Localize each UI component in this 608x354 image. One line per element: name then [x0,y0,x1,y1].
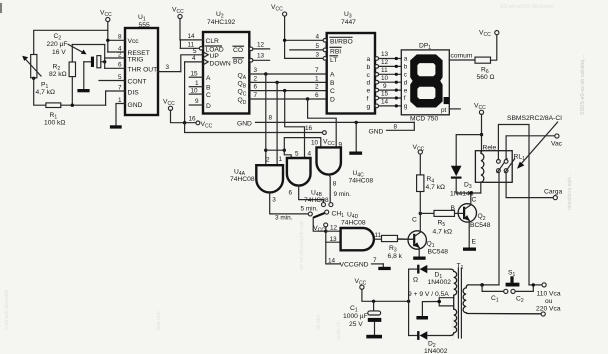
wire coil bottom [480,182,482,193]
svg-text:8: 8 [269,115,273,122]
junction 110 rail [532,283,535,286]
svg-text:C: C [206,92,211,99]
svg-text:1N4002: 1N4002 [428,279,452,286]
wire QA to U4C pin10 [284,138,321,151]
svg-text:R5: R5 [438,220,446,229]
svg-text:VCC: VCC [323,139,335,148]
junction rectifier output [407,300,410,303]
svg-text:C: C [412,217,417,224]
svg-text:a: a [367,56,371,63]
svg-text:ou: ou [545,298,553,305]
svg-text:CH1: CH1 [332,211,345,220]
wire DOWN pin4 to Vcc [185,61,203,63]
wire QD to U4C pin9 [308,99,337,147]
svg-text:110 Vca: 110 Vca [537,290,561,297]
wire BO stub pin13 [249,53,269,62]
svg-text:11: 11 [381,67,388,74]
svg-text:THR OUT: THR OUT [128,67,158,74]
junction QC [283,89,286,92]
svg-text:220 Vca: 220 Vca [536,305,561,312]
wire QD to U3 D [249,98,326,100]
wire CH1 pole to U4D inputs [313,218,326,232]
svg-text:c: c [404,72,408,79]
power Vcc symbol over U3 [271,4,287,58]
junction QA branch [264,149,267,152]
svg-text:BC548: BC548 [428,248,449,255]
svg-text:4: 4 [308,150,312,157]
terminal 220Vca [536,290,561,316]
svg-text:7: 7 [315,67,319,74]
svg-text:4,7 kΩ: 4,7 kΩ [36,89,56,96]
switch S1 pushbutton [506,270,520,287]
svg-text:RBI: RBI [330,49,341,56]
svg-text:VCC: VCC [271,4,283,13]
wire D stub pin9 [189,104,203,106]
junction QB [275,81,278,84]
AND gate U4C 74HC08 [311,140,373,185]
svg-text:UP: UP [210,53,220,60]
wire tap to C1 connector [482,285,504,292]
wire U4B output 5min [288,186,323,213]
resistor R4 [417,154,445,213]
svg-text:comum: comum [451,53,473,60]
svg-text:3: 3 [254,67,258,74]
svg-text:15: 15 [381,91,389,98]
svg-text:BC548: BC548 [470,222,491,229]
svg-text:BI/RBO: BI/RBO [330,39,353,46]
wire LOAD pin11 [180,40,203,50]
svg-text:16: 16 [189,116,197,123]
capacitor C1 [343,301,381,335]
svg-text:6,8 k: 6,8 k [388,253,403,260]
junction pin4 [283,39,286,42]
svg-text:16 V: 16 V [52,49,66,56]
wire A stub pin15 [189,76,203,78]
switch CH1 contact 9min [329,203,333,207]
svg-text:7447: 7447 [341,19,356,26]
junction Q2 collector node [469,191,472,194]
IC U2 74HC192 [203,11,249,114]
transistor Q1 BC548 [398,231,449,256]
svg-text:Rele: Rele [483,145,497,152]
wire Q1 emitter [418,248,420,257]
svg-text:A: A [330,72,335,79]
ground below U1 [110,125,122,128]
wire QC to U3 C [249,90,326,92]
svg-text:a: a [404,56,408,63]
wire right contact to Vac [506,136,555,160]
svg-text:74HC08: 74HC08 [349,178,374,185]
svg-text:25 V: 25 V [349,321,363,328]
svg-text:DOWN: DOWN [210,60,231,67]
wire GND rail drop [355,122,357,151]
wire QB to U3 B [249,81,326,83]
svg-text:5: 5 [315,43,319,50]
svg-text:82 kΩ: 82 kΩ [49,71,67,78]
wire U4C output 9min [329,175,351,203]
junction QA [264,72,267,75]
wire P1 to R1 [34,78,46,105]
svg-text:ob od obusoqoib oqsl: ob od obusoqoib oqsl [299,221,305,270]
wire CONT stub pin5 [99,80,125,82]
junction primary tap [480,283,484,287]
svg-text:g: g [367,103,371,110]
junction Vcc net [183,121,186,124]
AND gate U4A 74HC08 [230,156,283,192]
diode D3 1N4148 [450,166,474,198]
svg-text:Carga: Carga [544,188,562,195]
svg-text:ocoe ob: ocoe ob [336,321,342,340]
resistor R6 [475,57,495,81]
wire segment c pin11 [375,67,401,76]
svg-text:9 min.: 9 min. [334,191,352,198]
wire pt stub [449,108,460,110]
wire pin13 [326,231,341,243]
svg-text:14: 14 [188,33,196,40]
wire CO stub pin12 [249,41,269,50]
wire U4A output 3min [270,193,309,222]
AND gate U4D 74HC08 [341,212,374,251]
junction pin8 [106,39,109,42]
svg-text:f: f [404,95,406,102]
svg-text:4,7 kΩ: 4,7 kΩ [433,229,453,236]
svg-text:3 min.: 3 min. [275,214,293,221]
relay contact right [504,159,515,173]
power Vcc symbol over R6 [479,30,499,39]
svg-text:b: b [404,64,408,71]
ground below C2 [77,89,89,92]
svg-text:1: 1 [279,156,283,163]
junction TRIG-C2 [103,60,106,63]
wire segment a pin13 [375,51,401,60]
resistor R3 [382,235,415,259]
wire center tap [422,298,453,316]
svg-text:SBMS2RC2/8A-CI: SBMS2RC2/8A-CI [507,115,562,122]
svg-text:C: C [472,197,477,204]
svg-text:VCC: VCC [479,30,491,39]
svg-text:BO: BO [233,59,243,66]
svg-text:d: d [367,80,371,87]
capacitor C2 [47,33,105,89]
junction node C [419,212,422,215]
svg-text:8: 8 [118,34,122,41]
ground U4D pin7 [378,267,390,270]
transistor Q2 BC548 [458,204,491,229]
svg-text:1000 µF: 1000 µF [343,313,368,320]
ground Q2 emitter [463,248,476,251]
svg-text:ob sbn: ob sbn [316,314,322,330]
svg-text:220 µF: 220 µF [47,41,68,48]
svg-text:74HC08: 74HC08 [341,220,366,227]
wire CLR pin14 [180,39,203,41]
svg-text:14: 14 [381,99,389,106]
svg-text:100 kΩ: 100 kΩ [44,120,65,127]
terminal pin16 Vcc of U2 [189,116,213,130]
junction C1 top [372,300,375,303]
junction GND rail [355,121,358,124]
svg-text:5: 5 [193,48,197,55]
svg-text:Vac: Vac [551,141,563,148]
junction U4D input node [324,230,327,233]
wire C2 to 110 rail [515,285,533,292]
potentiometer P1 [22,55,55,96]
wire comum to R6 [449,53,475,60]
svg-text:TRIG: TRIG [128,56,144,63]
svg-text:9 + 9 V / 0,5A: 9 + 9 V / 0,5A [408,291,449,298]
svg-text:1: 1 [118,97,122,104]
svg-text:pt: pt [441,107,447,114]
diode D2 1N4002 [409,331,451,354]
svg-text:12: 12 [381,59,389,66]
svg-text:10: 10 [381,75,389,82]
svg-text:13: 13 [330,236,338,243]
resistor R2 [49,45,76,106]
wire Q2 collector [470,193,472,205]
wire pin12 [326,225,341,232]
transformer secondary winding [450,269,456,335]
wire segment d pin10 [375,75,401,84]
svg-text:74HC08: 74HC08 [230,176,255,183]
relay coil [481,151,484,183]
svg-text:MCD 750: MCD 750 [410,115,439,122]
svg-text:4: 4 [192,55,196,62]
svg-text:6: 6 [288,189,292,196]
wire U3 GND pin8 [369,122,415,135]
svg-text:6: 6 [315,92,319,99]
svg-text:D3: D3 [464,182,472,191]
svg-text:D: D [330,97,335,104]
svg-text:SS-e0+aS0S-30-otiqeo: SS-e0+aS0S-30-otiqeo [500,4,554,10]
wire QA drop to U4A pin2 [265,74,267,165]
terminal 110Vca [542,283,546,287]
wire C stub pin10 [189,93,203,95]
wire Vcc to D3 [456,135,481,166]
wire LT pin3 [285,52,327,61]
svg-text:1: 1 [315,75,319,82]
svg-text:8: 8 [333,181,337,188]
svg-text:2: 2 [315,84,319,91]
svg-text:16: 16 [305,125,313,132]
svg-text:5: 5 [118,74,122,81]
svg-text:CONT: CONT [128,79,147,86]
svg-text:14: 14 [328,257,336,264]
svg-text:5 min.: 5 min. [301,206,319,213]
power Vcc symbol over U2 [172,7,184,40]
svg-text:VCC: VCC [201,121,213,130]
svg-text:4,7 kΩ: 4,7 kΩ [426,184,446,191]
svg-text:10: 10 [311,140,319,147]
svg-text:VCC: VCC [163,99,175,108]
wire segment b pin12 [375,59,401,68]
svg-text:5: 5 [295,150,299,157]
wire QA to U3 A [249,73,326,75]
wire rectifier cathode bus [408,269,410,335]
svg-text:2: 2 [266,157,270,164]
svg-text:1N4002: 1N4002 [424,348,448,354]
svg-text:C1: C1 [491,295,499,304]
svg-text:e: e [367,88,371,95]
svg-text:B: B [451,205,456,212]
wire QB drop to U4A pin1 [276,82,278,165]
switch CH1 contact 3min [308,212,312,216]
svg-text:3: 3 [272,197,276,204]
svg-text:f: f [367,96,369,103]
junction QD [306,97,309,100]
wire 110 rail [529,284,542,286]
svg-text:11: 11 [375,232,382,239]
svg-text:Q2: Q2 [478,213,486,222]
terminal C1 connector [491,289,508,303]
display digit 8 [410,54,442,107]
ground Q1 emitter [413,257,425,260]
resistor R1 [44,103,106,127]
leader arrow to C2 [68,44,87,54]
wire Q2 emitter [468,220,470,247]
svg-text:2: 2 [254,75,258,82]
wire segment f pin15 [375,91,401,100]
svg-text:560 Ω: 560 Ω [477,74,495,81]
segment dp [444,97,450,104]
leader arrow to relay [517,122,558,169]
svg-text:b: b [367,64,371,71]
svg-text:15: 15 [191,70,199,77]
IC U1 555 [118,14,158,115]
wire 555 output to UP pin5 [158,55,203,72]
svg-text:E: E [472,239,477,246]
wire DIS pin7 [106,91,125,105]
wire segment g pin14 [375,99,401,108]
wire QC to U4B pin4 [285,91,305,158]
svg-text:GND: GND [237,120,252,127]
svg-text:VCC: VCC [100,10,112,19]
wire B stub pin1 [189,86,203,88]
svg-text:74HC192: 74HC192 [207,19,236,26]
ground center tap [416,316,428,320]
wire Q1 collector [419,213,421,232]
svg-text:7: 7 [254,92,258,99]
power Vcc symbol over U1 [100,10,112,31]
wire Vcc rail to pins 8 and 4 [34,30,125,54]
display DP1 MCD750 [401,43,449,123]
svg-text:e: e [404,87,408,94]
svg-text:10: 10 [191,87,199,94]
relay box Rele [475,145,512,183]
svg-text:C2: C2 [516,296,524,305]
svg-text:g: g [404,103,408,110]
wire GND rail U2 pin8 [237,115,414,128]
svg-text:obsoilduq sqls…: obsoilduq sqls… [567,172,573,210]
wire U4D power pins 14 VCC GND 7 [326,242,384,268]
transformer T1 [457,263,464,339]
svg-text:D: D [206,103,211,110]
diode D1 1N4002 [409,265,452,286]
wire left contact to Carga bus [498,125,529,285]
wire R6 to Vcc [491,35,497,60]
svg-text:1: 1 [195,80,199,87]
power Vcc symbol over R4 [413,144,425,154]
wire BI/RBO pin4 [285,33,327,42]
terminal Vcc stub at pin12 [313,223,327,234]
svg-text:A: A [206,75,211,82]
svg-text:7: 7 [373,257,377,264]
terminal Carga [544,188,562,199]
switch CH1 contact 5min [322,203,326,207]
svg-text:Vcc: Vcc [128,38,140,45]
switch CH1 arm [313,213,325,218]
power Vcc symbol at C1 [355,278,409,301]
svg-text:SS0S-e0-ss ob odnilóq…: SS0S-e0-ss ob odnilóq… [580,54,586,115]
transformer primary winding [463,285,541,314]
wire DOWN pin Vcc drop [184,62,186,123]
svg-text:13: 13 [257,53,265,60]
wire QA branch across [266,149,285,151]
wire segment e pin9 [375,83,401,92]
wire TRIG/THR node [72,45,125,69]
switch CH1 pole [325,210,329,214]
AND gate U4B 74HC08 [287,150,329,204]
svg-text:13: 13 [381,51,389,58]
terminal pin16 Vcc of U3 [305,125,335,147]
junction QA branch2 [283,149,286,152]
resistor R5 [420,210,464,235]
svg-text:VCCGND: VCCGND [340,262,369,269]
power Vcc symbol left of pin16 [163,99,196,123]
svg-text:VCC: VCC [474,103,486,112]
svg-text:boe obo: boe obo [156,311,162,330]
wire left contact bottom to mains rail [498,173,500,285]
svg-text:4: 4 [315,33,319,40]
wire QA to U4B pin5 [284,150,291,158]
wire D3 to coil bottom and Q2 collector [456,192,481,194]
svg-text:GND: GND [369,128,384,135]
junction Vcc relay node [480,133,483,136]
ground GND rail [349,152,362,155]
svg-text:8: 8 [394,123,398,130]
svg-text:LT: LT [330,57,337,64]
wire GND pin1 [116,104,125,126]
svg-text:555: 555 [139,22,150,29]
wire right contact bottom to Carga [506,173,553,198]
junction R2 bottom [71,104,74,107]
terminal C2 connector [511,289,524,304]
junction center tap [437,300,441,304]
svg-text:9: 9 [195,98,199,105]
svg-text:o ob sob obsoildx: o ob sob obsoildx [4,289,10,330]
junction P1 bottom [32,77,35,80]
svg-text:9: 9 [383,83,387,90]
relay contact left [497,159,508,173]
svg-text:B: B [330,80,335,87]
svg-text:T1: T1 [457,263,464,272]
svg-text:6: 6 [118,62,122,69]
terminal Vac [551,134,563,148]
svg-text:9: 9 [339,141,343,148]
IC U3 7447 [327,11,375,114]
svg-text:DIS: DIS [128,89,140,96]
svg-text:VCC: VCC [172,7,184,16]
svg-text:CLR: CLR [206,38,220,45]
wire Vcc rail to U3 pin16 [185,123,323,133]
svg-text:Ω: Ω [413,277,418,284]
svg-text:CO: CO [233,47,243,54]
svg-text:6: 6 [254,84,258,91]
svg-text:3: 3 [315,52,319,59]
svg-text:12: 12 [330,225,338,232]
wire U4D output pin11 [374,232,382,239]
ground C1 [366,335,382,339]
svg-text:7: 7 [118,84,122,91]
svg-text:GND: GND [128,102,143,109]
